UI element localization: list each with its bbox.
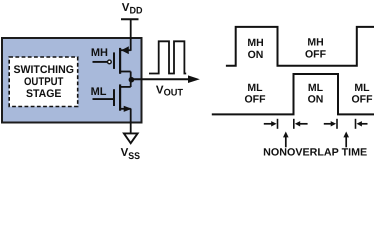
arrow callout up 2 — [343, 132, 349, 148]
arrow pointing left at interval 1 — [295, 121, 308, 126]
label MH OFF — [305, 37, 327, 61]
svg-text:OFF: OFF — [305, 49, 327, 61]
svg-text:ML: ML — [354, 82, 370, 94]
wire VDD rail — [130, 19, 132, 51]
arrow pointing left at interval 2 — [357, 121, 368, 126]
svg-text:OUTPUT: OUTPUT — [24, 76, 64, 88]
svg-text:VOUT: VOUT — [156, 84, 183, 98]
svg-text:MH: MH — [91, 47, 108, 59]
arrow callout up 1 — [283, 132, 289, 148]
block: switching output stage enclosure — [2, 38, 142, 123]
tick nonoverlap interval 2 left — [336, 119, 338, 129]
wire VOUT arrow — [131, 75, 199, 83]
svg-text:ON: ON — [248, 49, 264, 61]
wire ML gate — [93, 98, 115, 100]
svg-text:STAGE: STAGE — [26, 88, 62, 100]
svg-text:ON: ON — [308, 93, 324, 105]
label ML OFF right — [352, 82, 374, 105]
block: SWITCHING OUTPUT STAGE dashed box — [9, 57, 78, 107]
label ML OFF left — [245, 82, 267, 105]
arrow pointing right at interval 2 — [324, 121, 336, 126]
transistor ML (NMOS) — [114, 84, 132, 112]
waveform ML trace — [212, 74, 374, 114]
svg-text:ML: ML — [247, 82, 263, 94]
svg-text:MH: MH — [307, 37, 323, 49]
tick nonoverlap interval 1 right — [293, 119, 295, 129]
svg-text:OFF: OFF — [245, 93, 267, 105]
label MH ON — [247, 37, 263, 61]
svg-text:ML: ML — [308, 82, 324, 94]
node output junction — [129, 77, 135, 83]
svg-text:ML: ML — [91, 86, 107, 98]
tick nonoverlap interval 2 right — [355, 119, 357, 129]
svg-text:MH: MH — [247, 37, 263, 49]
label ML ON — [308, 82, 324, 105]
wire MH drain to ML drain — [130, 72, 132, 88]
wire MH gate — [93, 61, 108, 63]
ground VSS triangle — [124, 133, 138, 143]
transistor MH (PMOS) — [108, 46, 131, 74]
svg-text:NONOVERLAP TIME: NONOVERLAP TIME — [263, 147, 367, 159]
svg-text:SWITCHING: SWITCHING — [13, 64, 74, 76]
waveform MH trace — [226, 27, 374, 66]
svg-text:VSS: VSS — [121, 147, 141, 162]
wire ML source to VSS — [130, 109, 132, 134]
svg-text:VDD: VDD — [122, 2, 143, 17]
arrow pointing right at interval 1 — [264, 121, 277, 126]
tick nonoverlap interval 1 left — [277, 119, 279, 129]
power VDD bar — [121, 18, 139, 20]
svg-text:OFF: OFF — [352, 93, 374, 105]
waveform VOUT pulse glyph — [149, 41, 186, 73]
